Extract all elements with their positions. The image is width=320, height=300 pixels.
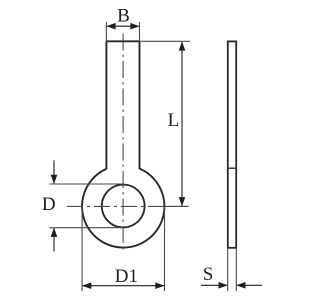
shank (front view body) xyxy=(106,41,139,169)
dimension L top extension line xyxy=(140,40,191,42)
dimension L bottom extension line xyxy=(163,205,189,207)
dimension L arrowheads xyxy=(179,41,186,50)
svg-text:D: D xyxy=(42,194,56,215)
dimension B arrowheads xyxy=(106,23,115,30)
svg-text:S: S xyxy=(203,264,214,285)
dimension D bottom arrow xyxy=(53,228,55,251)
dimension D top arrow xyxy=(53,161,55,184)
dimension B extension lines xyxy=(106,22,139,42)
svg-text:L: L xyxy=(168,110,180,131)
side view plate outline xyxy=(228,41,236,247)
dimension D extension lines xyxy=(50,184,125,228)
dimension B arrow line xyxy=(107,25,139,27)
dimension S right arrow xyxy=(237,284,262,286)
side view junction tick xyxy=(228,167,236,169)
dimension S extension lines xyxy=(228,248,237,291)
vertical centerline xyxy=(122,34,124,253)
horizontal centerline xyxy=(67,205,189,207)
dimension D1 extension lines xyxy=(82,207,164,291)
dimension D1 line xyxy=(83,285,164,287)
dimension S left arrow xyxy=(201,284,227,286)
svg-text:B: B xyxy=(117,5,130,26)
dimension L line xyxy=(181,42,183,206)
dimension D1 arrowheads xyxy=(82,282,91,289)
eye inner hole circle xyxy=(102,185,145,228)
eye outer circle xyxy=(82,169,164,248)
svg-text:D1: D1 xyxy=(115,266,138,287)
